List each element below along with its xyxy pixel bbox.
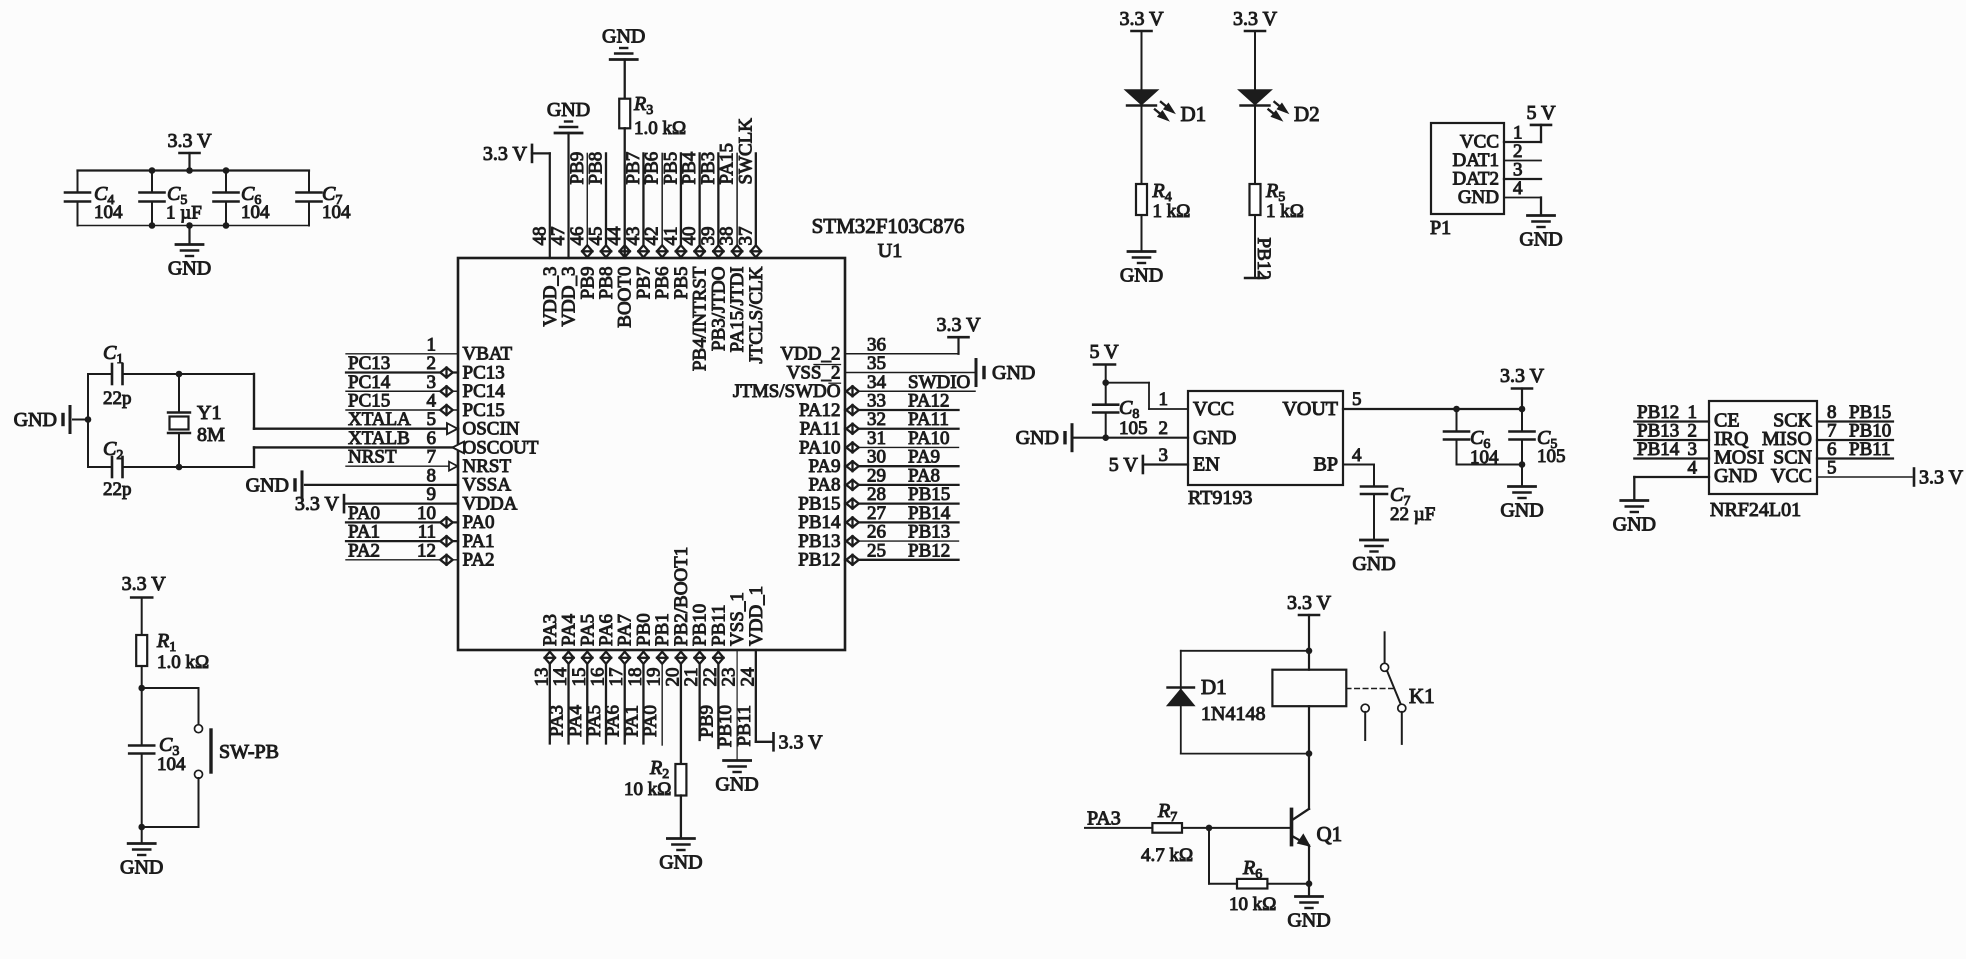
svg-text:EN: EN (1193, 454, 1220, 476)
svg-text:3.3 V: 3.3 V (1500, 365, 1545, 387)
svg-text:PB11: PB11 (1849, 439, 1891, 460)
svg-text:3.3 V: 3.3 V (1919, 467, 1964, 489)
svg-text:3.3 V: 3.3 V (483, 143, 528, 165)
svg-text:22p: 22p (103, 479, 132, 500)
svg-text:VDD_1: VDD_1 (746, 586, 767, 646)
svg-text:GND: GND (120, 857, 163, 879)
svg-text:1.0 kΩ: 1.0 kΩ (157, 652, 209, 673)
svg-text:JTCLS/CLK: JTCLS/CLK (746, 266, 767, 363)
svg-text:U1: U1 (878, 240, 902, 262)
svg-text:3.3 V: 3.3 V (1119, 8, 1164, 30)
svg-text:104: 104 (322, 202, 351, 223)
svg-text:3.3 V: 3.3 V (779, 731, 824, 753)
svg-text:GND: GND (547, 99, 590, 121)
svg-text:22p: 22p (103, 388, 132, 409)
svg-text:10 kΩ: 10 kΩ (1229, 894, 1276, 915)
svg-text:Q1: Q1 (1317, 822, 1343, 846)
svg-text:GND: GND (992, 362, 1035, 384)
svg-text:3.3 V: 3.3 V (167, 130, 212, 152)
svg-text:C1: C1 (103, 342, 123, 367)
svg-text:4: 4 (1513, 178, 1523, 199)
svg-text:4: 4 (1352, 445, 1362, 466)
svg-text:GND: GND (1500, 500, 1543, 522)
svg-text:VCC: VCC (1771, 465, 1812, 487)
svg-text:PB8: PB8 (585, 152, 606, 185)
svg-text:GND: GND (1287, 910, 1330, 932)
svg-text:37: 37 (735, 227, 756, 246)
svg-text:PA2: PA2 (348, 540, 380, 561)
svg-text:GND: GND (659, 852, 702, 874)
svg-text:3.3 V: 3.3 V (295, 493, 340, 515)
svg-text:PA0: PA0 (640, 705, 661, 737)
svg-text:GND: GND (1193, 427, 1236, 449)
svg-text:GND: GND (602, 26, 645, 48)
svg-text:NRF24L01: NRF24L01 (1710, 499, 1801, 521)
svg-text:5 V: 5 V (1526, 102, 1556, 124)
svg-text:GND: GND (1458, 187, 1499, 208)
svg-text:P1: P1 (1430, 217, 1451, 239)
svg-text:3.3 V: 3.3 V (936, 314, 981, 336)
svg-text:104: 104 (1470, 447, 1499, 468)
svg-text:3.3 V: 3.3 V (122, 573, 167, 595)
svg-text:GND: GND (1613, 514, 1656, 536)
svg-text:STM32F103C876: STM32F103C876 (812, 214, 965, 238)
svg-text:GND: GND (168, 258, 211, 280)
svg-text:10 kΩ: 10 kΩ (624, 779, 671, 800)
svg-text:VOUT: VOUT (1282, 398, 1338, 420)
svg-text:R6: R6 (1242, 857, 1262, 882)
svg-text:PA3: PA3 (1087, 808, 1121, 830)
svg-text:5 V: 5 V (1089, 341, 1119, 363)
svg-text:5: 5 (1352, 389, 1362, 410)
svg-text:24: 24 (737, 667, 758, 687)
svg-text:104: 104 (241, 202, 270, 223)
svg-text:GND: GND (1352, 553, 1395, 575)
svg-text:PB12: PB12 (908, 540, 950, 561)
svg-text:4.7 kΩ: 4.7 kΩ (1141, 845, 1193, 866)
svg-text:D1: D1 (1201, 675, 1227, 699)
svg-text:22 µF: 22 µF (1390, 504, 1435, 525)
svg-text:GND: GND (246, 474, 289, 496)
svg-text:PB14: PB14 (1637, 439, 1680, 460)
svg-text:2: 2 (1159, 418, 1169, 439)
svg-text:R7: R7 (1157, 800, 1177, 825)
svg-text:12: 12 (417, 540, 436, 561)
svg-text:105: 105 (1537, 446, 1566, 467)
svg-text:D1: D1 (1181, 102, 1207, 126)
svg-text:1 kΩ: 1 kΩ (1153, 201, 1191, 222)
svg-text:104: 104 (157, 754, 186, 775)
svg-text:VCC: VCC (1193, 398, 1234, 420)
svg-text:RT9193: RT9193 (1188, 487, 1252, 509)
svg-text:GND: GND (1016, 427, 1059, 449)
svg-text:Y1: Y1 (197, 402, 221, 424)
svg-text:SWCLK: SWCLK (735, 118, 756, 185)
svg-text:K1: K1 (1409, 684, 1435, 708)
svg-text:C2: C2 (103, 438, 123, 463)
svg-text:1.0 kΩ: 1.0 kΩ (634, 118, 686, 139)
svg-text:104: 104 (94, 202, 123, 223)
svg-text:GND: GND (1120, 265, 1163, 287)
svg-text:SW-PB: SW-PB (219, 741, 279, 763)
svg-text:1N4148: 1N4148 (1201, 703, 1265, 725)
svg-text:BP: BP (1314, 454, 1338, 476)
svg-text:D2: D2 (1294, 102, 1320, 126)
svg-text:105: 105 (1119, 418, 1148, 439)
svg-text:3: 3 (1159, 445, 1169, 466)
svg-text:PB12: PB12 (798, 550, 840, 571)
svg-text:1 kΩ: 1 kΩ (1266, 201, 1304, 222)
svg-text:4: 4 (1688, 458, 1698, 479)
svg-text:GND: GND (715, 774, 758, 796)
svg-text:PB12: PB12 (1253, 238, 1274, 280)
svg-text:8M: 8M (197, 424, 225, 446)
svg-text:3.3 V: 3.3 V (1233, 8, 1278, 30)
svg-text:PA2: PA2 (463, 550, 495, 571)
svg-text:GND: GND (14, 409, 57, 431)
svg-text:25: 25 (867, 540, 886, 561)
svg-text:5 V: 5 V (1109, 454, 1139, 476)
svg-text:GND: GND (1714, 465, 1757, 487)
svg-text:NRST: NRST (348, 447, 397, 468)
svg-text:1: 1 (1159, 389, 1169, 410)
svg-text:3.3 V: 3.3 V (1287, 592, 1332, 614)
svg-text:5: 5 (1827, 458, 1837, 479)
svg-text:PB11: PB11 (734, 705, 755, 747)
svg-text:1 µF: 1 µF (166, 203, 202, 224)
svg-text:GND: GND (1519, 229, 1562, 251)
svg-text:R3: R3 (633, 93, 653, 118)
